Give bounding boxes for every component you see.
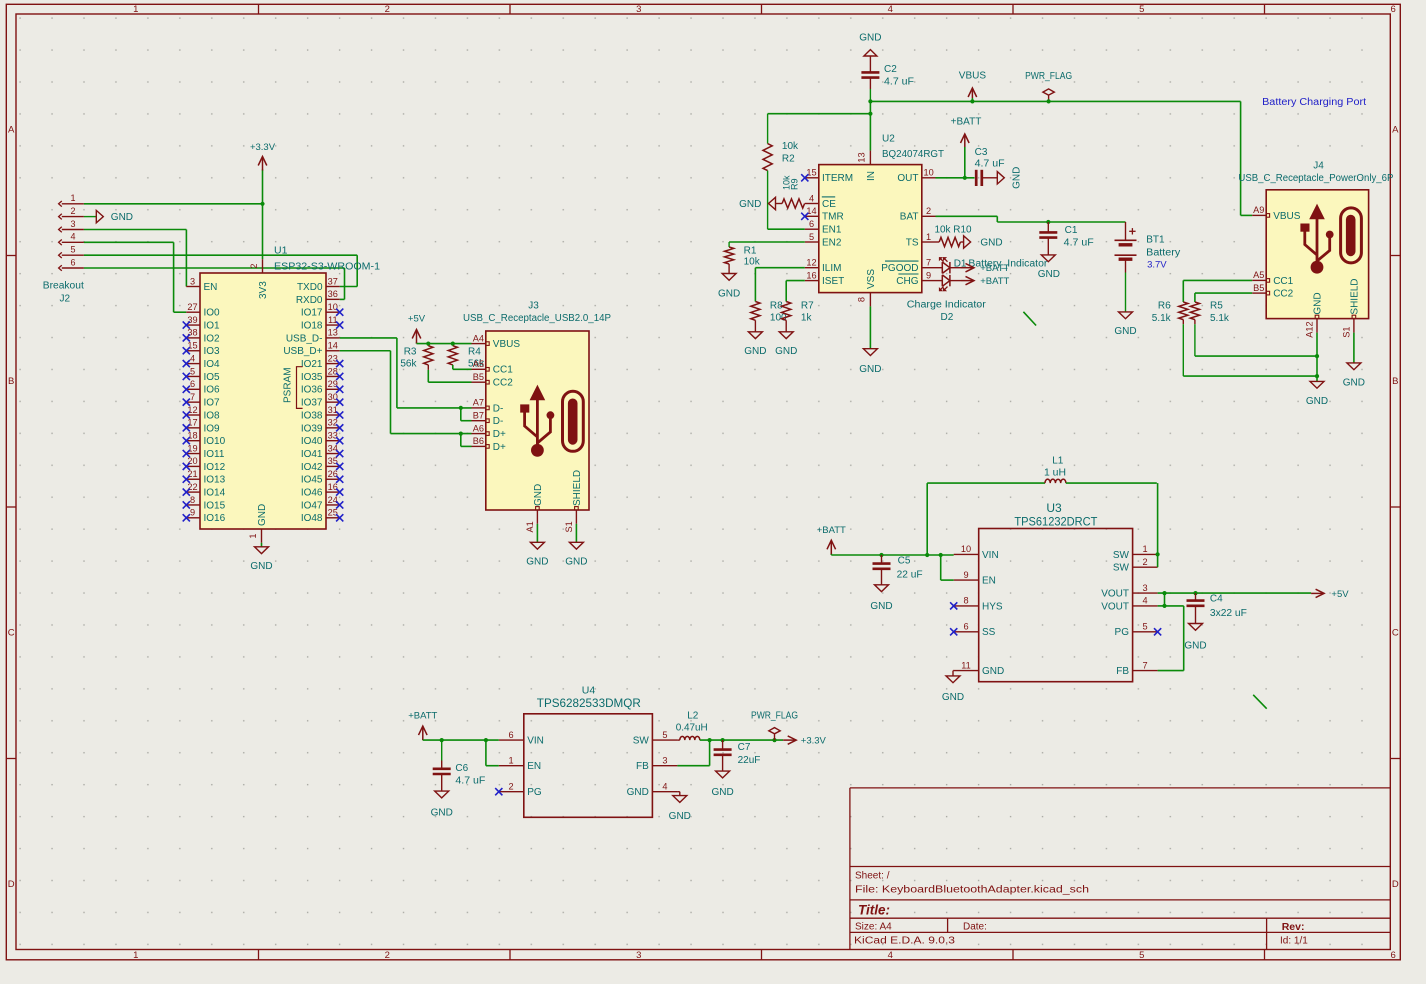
svg-text:+BATT: +BATT bbox=[980, 276, 1009, 287]
svg-text:KiCad E.D.A. 9.0.3: KiCad E.D.A. 9.0.3 bbox=[854, 936, 956, 947]
svg-text:16: 16 bbox=[328, 482, 338, 492]
svg-text:IO45: IO45 bbox=[301, 475, 323, 486]
power symbol GND under C6 bbox=[431, 791, 453, 818]
svg-text:3.7V: 3.7V bbox=[1147, 259, 1167, 270]
svg-text:GND: GND bbox=[257, 504, 268, 526]
svg-text:CC2: CC2 bbox=[1273, 289, 1293, 300]
power symbol +BATT at U4 bbox=[408, 711, 437, 741]
svg-text:VBUS: VBUS bbox=[493, 339, 521, 350]
wire +BATT to U4 VIN bbox=[423, 738, 499, 766]
svg-text:C3: C3 bbox=[975, 147, 988, 158]
svg-text:1: 1 bbox=[70, 193, 75, 203]
svg-text:1: 1 bbox=[133, 4, 138, 15]
resistor R4 56k bbox=[448, 344, 485, 370]
svg-text:3: 3 bbox=[1142, 583, 1147, 593]
svg-text:IO38: IO38 bbox=[301, 410, 323, 421]
svg-text:16: 16 bbox=[806, 270, 816, 280]
no-connect U3 HYS bbox=[950, 602, 957, 609]
svg-text:PG: PG bbox=[527, 787, 542, 798]
svg-text:11: 11 bbox=[328, 315, 338, 325]
svg-text:IO39: IO39 bbox=[301, 423, 323, 434]
svg-text:+3.3V: +3.3V bbox=[250, 142, 276, 153]
wire U2 BAT to battery bbox=[936, 216, 1126, 224]
power symbol GND right of C3 bbox=[997, 167, 1022, 189]
svg-text:IO18: IO18 bbox=[301, 320, 323, 331]
svg-text:IO7: IO7 bbox=[204, 398, 221, 409]
wire U3 VOUT to +5V bbox=[1158, 591, 1312, 671]
svg-text:GND: GND bbox=[718, 288, 740, 299]
svg-text:6: 6 bbox=[70, 257, 75, 267]
svg-text:ESP32-S3-WROOM-1: ESP32-S3-WROOM-1 bbox=[274, 261, 380, 273]
svg-text:TMR: TMR bbox=[822, 212, 844, 223]
svg-text:VOUT: VOUT bbox=[1101, 601, 1129, 612]
svg-text:Charge Indicator: Charge Indicator bbox=[907, 299, 987, 310]
power symbol GND under U4 GND pin bbox=[669, 796, 691, 822]
svg-text:C7: C7 bbox=[738, 742, 751, 753]
svg-text:22uF: 22uF bbox=[738, 755, 761, 766]
power symbol +BATT at D1 bbox=[961, 263, 1010, 274]
svg-text:L2: L2 bbox=[687, 711, 699, 722]
svg-text:2: 2 bbox=[508, 782, 513, 792]
svg-text:C5: C5 bbox=[898, 556, 911, 567]
svg-text:Battery: Battery bbox=[1146, 247, 1180, 258]
wire VBUS rail down to J4 VBUS bbox=[1241, 101, 1253, 215]
svg-text:5: 5 bbox=[190, 366, 195, 376]
svg-text:35: 35 bbox=[328, 456, 338, 466]
no-connect on U2 TMR bbox=[801, 213, 808, 220]
svg-text:5: 5 bbox=[809, 232, 814, 242]
svg-text:C4: C4 bbox=[1210, 594, 1223, 605]
LED D2 Charge Indicator bbox=[907, 275, 987, 323]
svg-text:1: 1 bbox=[1142, 544, 1147, 554]
power symbol GND under U1 bbox=[250, 543, 272, 572]
svg-text:2: 2 bbox=[70, 206, 75, 216]
capacitor C7 22uF bbox=[714, 740, 761, 771]
wire VBUS rail (top horizontal) bbox=[768, 99, 1241, 150]
svg-text:3: 3 bbox=[636, 950, 641, 961]
svg-text:4: 4 bbox=[888, 4, 893, 15]
svg-text:GND: GND bbox=[1312, 292, 1323, 314]
connector J2 (Breakout) bbox=[43, 193, 84, 304]
resistor R7 1k bbox=[782, 301, 815, 332]
power symbol GND under C5 bbox=[870, 585, 892, 612]
svg-text:VBUS: VBUS bbox=[959, 71, 987, 82]
svg-text:D-: D- bbox=[493, 416, 504, 427]
svg-text:37: 37 bbox=[328, 276, 338, 286]
svg-text:C6: C6 bbox=[455, 763, 468, 774]
svg-text:TXD0: TXD0 bbox=[297, 282, 323, 293]
svg-text:GND: GND bbox=[744, 346, 766, 357]
power symbol GND under C4 bbox=[1184, 624, 1206, 652]
svg-text:TS: TS bbox=[906, 237, 919, 248]
svg-text:+BATT: +BATT bbox=[980, 263, 1009, 274]
svg-text:4: 4 bbox=[1142, 596, 1147, 606]
svg-text:EN: EN bbox=[982, 576, 996, 587]
power flag PWR_FLAG (top) bbox=[1025, 71, 1072, 104]
svg-text:5.1k: 5.1k bbox=[1152, 313, 1172, 324]
svg-text:R7: R7 bbox=[801, 301, 814, 312]
svg-text:B: B bbox=[8, 376, 14, 387]
svg-text:GND: GND bbox=[942, 692, 964, 703]
wire U1 USB_D+ to J3 D+ bbox=[340, 351, 472, 447]
power symbol GND at U3 GND pin bbox=[942, 671, 964, 703]
power symbol GND under C7 bbox=[711, 771, 733, 798]
svg-text:J4: J4 bbox=[1313, 161, 1324, 172]
svg-text:CC2: CC2 bbox=[493, 378, 513, 389]
wire L2 to +3.3V bbox=[677, 738, 783, 766]
svg-text:OUT: OUT bbox=[897, 173, 918, 184]
resistor R5 5.1k bbox=[1190, 301, 1230, 357]
svg-text:File: KeyboardBluetoothAdapter: File: KeyboardBluetoothAdapter.kicad_sch bbox=[855, 885, 1089, 896]
svg-text:R2: R2 bbox=[782, 153, 795, 164]
svg-text:ITERM: ITERM bbox=[822, 173, 853, 184]
svg-text:GND: GND bbox=[739, 199, 761, 210]
svg-text:U1: U1 bbox=[274, 245, 288, 257]
svg-text:PGOOD: PGOOD bbox=[881, 263, 918, 274]
svg-text:10: 10 bbox=[328, 302, 338, 312]
svg-text:USB_C_Receptacle_PowerOnly_6P: USB_C_Receptacle_PowerOnly_6P bbox=[1238, 173, 1393, 184]
svg-text:VIN: VIN bbox=[527, 736, 544, 747]
svg-text:IO14: IO14 bbox=[204, 488, 226, 499]
svg-text:A4: A4 bbox=[473, 333, 484, 343]
svg-text:C1: C1 bbox=[1065, 225, 1078, 236]
svg-text:10k: 10k bbox=[744, 256, 761, 267]
svg-text:IO9: IO9 bbox=[204, 423, 221, 434]
svg-text:A: A bbox=[8, 125, 15, 136]
svg-text:6: 6 bbox=[1391, 4, 1396, 15]
wire U4 SW to L2 bbox=[677, 739, 679, 741]
svg-text:IO46: IO46 bbox=[301, 488, 323, 499]
svg-text:7: 7 bbox=[190, 392, 195, 402]
svg-text:GND: GND bbox=[982, 666, 1004, 677]
svg-text:2: 2 bbox=[249, 263, 259, 268]
svg-text:32: 32 bbox=[328, 418, 338, 428]
svg-text:EN: EN bbox=[204, 282, 218, 293]
svg-text:A12: A12 bbox=[1305, 321, 1315, 337]
svg-text:Battery Charging Port: Battery Charging Port bbox=[1262, 97, 1366, 108]
svg-text:10k: 10k bbox=[782, 141, 799, 152]
wire J4 CC2 to R5 bbox=[1195, 293, 1252, 302]
svg-text:EN: EN bbox=[527, 761, 541, 772]
svg-text:IO10: IO10 bbox=[204, 436, 226, 447]
wire U4 GND pin to GND bbox=[677, 792, 679, 796]
IC U3 TPS61232DRCT bbox=[954, 501, 1158, 682]
svg-text:34: 34 bbox=[328, 443, 338, 453]
text 10k R9 (rotated) near ITERM bbox=[782, 175, 800, 190]
svg-text:CE: CE bbox=[822, 199, 836, 210]
svg-text:0.47uH: 0.47uH bbox=[676, 723, 708, 734]
svg-text:C2: C2 bbox=[884, 64, 897, 75]
power symbol +BATT at D2 bbox=[961, 276, 1010, 287]
svg-text:PG: PG bbox=[1115, 627, 1130, 638]
inductor L2 0.47uH bbox=[676, 711, 708, 741]
svg-text:7: 7 bbox=[926, 258, 931, 268]
power symbol GND at J3 A1 bbox=[526, 524, 548, 568]
wire J2 pin5 to U1 TXD0 bbox=[84, 255, 357, 286]
svg-text:SW: SW bbox=[633, 736, 650, 747]
svg-text:C: C bbox=[8, 627, 15, 638]
stray wire segment near C1 bbox=[1023, 312, 1036, 326]
wire J2 pin1 to +3.3V and U1 3V3 bbox=[84, 202, 265, 260]
svg-text:IO41: IO41 bbox=[301, 449, 323, 460]
wire U2 OUT to C3 bbox=[936, 176, 975, 180]
svg-text:GND: GND bbox=[431, 807, 453, 818]
svg-text:SHIELD: SHIELD bbox=[1349, 278, 1360, 314]
svg-text:C: C bbox=[1392, 627, 1399, 638]
svg-text:B6: B6 bbox=[473, 436, 484, 446]
svg-text:GND: GND bbox=[111, 212, 133, 223]
svg-text:CC1: CC1 bbox=[493, 365, 513, 376]
svg-text:6: 6 bbox=[809, 219, 814, 229]
svg-text:Size: A4: Size: A4 bbox=[855, 922, 892, 933]
svg-text:CHG: CHG bbox=[896, 276, 918, 287]
svg-text:6: 6 bbox=[1391, 950, 1396, 961]
svg-text:6: 6 bbox=[190, 379, 195, 389]
svg-text:PWR_FLAG: PWR_FLAG bbox=[1025, 71, 1072, 82]
LED D1 Battery_Indicator bbox=[936, 258, 1049, 274]
svg-text:ISET: ISET bbox=[822, 276, 844, 287]
svg-text:USB_D+: USB_D+ bbox=[283, 346, 322, 357]
power symbol GND right of R10 bbox=[964, 236, 1003, 249]
capacitor C5 22uF bbox=[873, 555, 923, 585]
svg-text:J2: J2 bbox=[60, 294, 71, 305]
svg-text:VIN: VIN bbox=[982, 550, 999, 561]
svg-text:5.1k: 5.1k bbox=[1210, 313, 1230, 324]
svg-text:6: 6 bbox=[508, 730, 513, 740]
svg-text:R1: R1 bbox=[744, 246, 757, 257]
svg-text:2: 2 bbox=[385, 4, 390, 15]
svg-text:USB_C_Receptacle_USB2.0_14P: USB_C_Receptacle_USB2.0_14P bbox=[463, 313, 611, 324]
svg-text:BT1: BT1 bbox=[1146, 235, 1165, 246]
svg-text:D: D bbox=[1392, 879, 1399, 890]
resistor R3 56k bbox=[400, 344, 433, 383]
svg-text:4: 4 bbox=[662, 782, 667, 792]
svg-text:+3.3V: +3.3V bbox=[801, 736, 827, 747]
IC U4 TPS6282533DMQR bbox=[499, 684, 678, 817]
svg-text:GND: GND bbox=[669, 811, 691, 822]
power symbol +3.3V right bbox=[783, 736, 826, 747]
svg-text:1 uH: 1 uH bbox=[1044, 467, 1066, 478]
svg-text:8: 8 bbox=[857, 297, 867, 302]
svg-text:EN1: EN1 bbox=[822, 225, 842, 236]
power symbol GND at J2 pin 2 bbox=[84, 210, 133, 223]
svg-text:10: 10 bbox=[961, 544, 971, 554]
svg-text:14: 14 bbox=[328, 341, 338, 351]
svg-text:IO0: IO0 bbox=[204, 308, 221, 319]
wire J4 A12 down bbox=[1316, 333, 1318, 382]
svg-text:R5: R5 bbox=[1210, 301, 1223, 312]
svg-text:IO15: IO15 bbox=[204, 500, 226, 511]
svg-text:5: 5 bbox=[1142, 622, 1147, 632]
svg-text:D+: D+ bbox=[493, 429, 506, 440]
svg-text:10k R10: 10k R10 bbox=[935, 225, 972, 236]
svg-text:IO17: IO17 bbox=[301, 308, 323, 319]
power flag PWR_FLAG at U4 bbox=[751, 711, 798, 741]
resistor R10 10k (horizontal at TS) bbox=[935, 225, 972, 247]
svg-text:A5: A5 bbox=[1253, 270, 1264, 280]
svg-text:PSRAM: PSRAM bbox=[283, 367, 294, 403]
svg-text:BQ24074RGT: BQ24074RGT bbox=[882, 149, 944, 160]
power symbol GND under R7 bbox=[775, 332, 797, 357]
svg-text:GND: GND bbox=[250, 561, 272, 572]
power symbol +BATT at U3 bbox=[817, 525, 846, 555]
svg-text:2: 2 bbox=[385, 950, 390, 961]
svg-text:A9: A9 bbox=[1253, 205, 1264, 215]
no-connect on U2 ITERM bbox=[801, 174, 808, 181]
wire J4 S1 down bbox=[1353, 333, 1355, 363]
wire R3 to J3 CC2 bbox=[428, 381, 471, 383]
power symbol +5V bbox=[408, 314, 426, 344]
svg-text:A7: A7 bbox=[473, 398, 484, 408]
svg-text:IO5: IO5 bbox=[204, 372, 221, 383]
capacitor C2 4.7uF bbox=[861, 56, 914, 101]
svg-text:4.7 uF: 4.7 uF bbox=[884, 76, 914, 87]
svg-text:S1: S1 bbox=[1341, 327, 1351, 338]
wire J4 CC1 to R6 bbox=[1183, 280, 1252, 302]
svg-text:11: 11 bbox=[961, 660, 971, 670]
svg-text:IO37: IO37 bbox=[301, 398, 323, 409]
svg-text:Sheet: /: Sheet: / bbox=[855, 871, 890, 882]
svg-text:GND: GND bbox=[627, 787, 649, 798]
svg-text:IO35: IO35 bbox=[301, 372, 323, 383]
connector J4 USB_C_Receptacle_PowerOnly_6P bbox=[1238, 161, 1393, 338]
power symbol GND under C1 bbox=[1038, 255, 1060, 280]
svg-text:SS: SS bbox=[982, 627, 996, 638]
svg-text:9: 9 bbox=[926, 270, 931, 280]
wire U2 ISET to R7 bbox=[786, 281, 805, 302]
svg-text:5: 5 bbox=[1139, 4, 1144, 15]
wire J2 pin6 to U1 RXD0 bbox=[84, 268, 345, 299]
svg-text:6: 6 bbox=[963, 622, 968, 632]
svg-text:IO42: IO42 bbox=[301, 462, 323, 473]
svg-text:+BATT: +BATT bbox=[408, 711, 437, 722]
power symbol GND under BT1 bbox=[1114, 312, 1136, 337]
power symbol GND under J4 A12 bbox=[1306, 381, 1328, 406]
svg-text:U2: U2 bbox=[882, 134, 895, 145]
svg-text:R3: R3 bbox=[404, 346, 417, 357]
svg-text:29: 29 bbox=[328, 379, 338, 389]
svg-text:PWR_FLAG: PWR_FLAG bbox=[751, 711, 798, 722]
svg-text:Id: 1/1: Id: 1/1 bbox=[1280, 936, 1308, 947]
svg-text:12: 12 bbox=[806, 258, 816, 268]
svg-text:CC1: CC1 bbox=[1273, 276, 1293, 287]
svg-text:5: 5 bbox=[1139, 950, 1144, 961]
svg-text:D: D bbox=[8, 879, 15, 890]
svg-text:TPS6282533DMQR: TPS6282533DMQR bbox=[537, 696, 641, 710]
svg-text:R6: R6 bbox=[1158, 301, 1171, 312]
svg-text:+BATT: +BATT bbox=[951, 117, 982, 128]
title block bbox=[850, 788, 1390, 950]
svg-text:FB: FB bbox=[1116, 666, 1129, 677]
svg-text:5: 5 bbox=[70, 245, 75, 255]
wire U1 USB_D- to J3 D- bbox=[340, 338, 472, 421]
svg-text:S1: S1 bbox=[564, 521, 574, 532]
svg-text:9: 9 bbox=[190, 508, 195, 518]
svg-text:4.7 uF: 4.7 uF bbox=[1064, 238, 1094, 249]
svg-text:R4: R4 bbox=[468, 346, 481, 357]
svg-text:Rev:: Rev: bbox=[1282, 921, 1305, 933]
svg-text:7: 7 bbox=[1142, 660, 1147, 670]
power symbol GND under U2 VSS bbox=[859, 349, 881, 375]
wire R6 to J4 A12 net bbox=[1183, 374, 1319, 378]
svg-text:B7: B7 bbox=[473, 411, 484, 421]
svg-text:IO8: IO8 bbox=[204, 410, 221, 421]
USB logo inside J4 bbox=[1301, 205, 1362, 274]
svg-text:IO6: IO6 bbox=[204, 385, 221, 396]
wire +BATT to U3 VIN bbox=[831, 483, 953, 580]
svg-text:IO4: IO4 bbox=[204, 359, 221, 370]
svg-text:Date:: Date: bbox=[963, 922, 987, 933]
svg-text:D-: D- bbox=[493, 403, 504, 414]
power symbol GND under J4 S1 bbox=[1343, 363, 1365, 389]
svg-text:B5: B5 bbox=[473, 372, 484, 382]
svg-text:25: 25 bbox=[328, 508, 338, 518]
svg-text:GND: GND bbox=[859, 364, 881, 375]
svg-text:IO13: IO13 bbox=[204, 475, 226, 486]
svg-text:3: 3 bbox=[662, 756, 667, 766]
wire J2 pin4 to U1 IO0 bbox=[84, 242, 186, 312]
svg-text:IO2: IO2 bbox=[204, 333, 221, 344]
stray wire segment below C4 bbox=[1253, 695, 1267, 709]
svg-text:3V3: 3V3 bbox=[258, 281, 269, 299]
svg-text:IO1: IO1 bbox=[204, 320, 221, 331]
svg-text:D2: D2 bbox=[941, 312, 954, 323]
inductor L1 1uH bbox=[927, 455, 1157, 483]
svg-text:4: 4 bbox=[888, 950, 893, 961]
svg-text:GND: GND bbox=[1038, 269, 1060, 280]
svg-text:FB: FB bbox=[636, 761, 649, 772]
svg-text:31: 31 bbox=[328, 405, 338, 415]
svg-text:GND: GND bbox=[1184, 640, 1206, 651]
svg-text:1: 1 bbox=[508, 756, 513, 766]
svg-text:GND: GND bbox=[1343, 377, 1365, 388]
svg-text:4.7 uF: 4.7 uF bbox=[455, 775, 485, 786]
svg-text:IO48: IO48 bbox=[301, 513, 323, 524]
svg-text:3: 3 bbox=[70, 219, 75, 229]
svg-text:3x22 uF: 3x22 uF bbox=[1210, 608, 1247, 619]
svg-text:R9: R9 bbox=[790, 178, 800, 190]
svg-text:IO3: IO3 bbox=[204, 346, 221, 357]
power symbol GND above C2 (inverted) bbox=[859, 33, 881, 56]
svg-text:TPS61232DRCT: TPS61232DRCT bbox=[1014, 515, 1098, 529]
capacitor C3 4.7uF (horizontal) bbox=[975, 147, 1005, 186]
svg-text:IO16: IO16 bbox=[204, 513, 226, 524]
wire U2 VSS to GND bbox=[869, 306, 871, 348]
svg-text:26: 26 bbox=[328, 469, 338, 479]
svg-text:SW: SW bbox=[1113, 563, 1130, 574]
svg-text:SHIELD: SHIELD bbox=[572, 470, 583, 506]
wire U2 EN2 to R1 bbox=[729, 241, 805, 243]
svg-text:Breakout: Breakout bbox=[43, 281, 84, 292]
svg-text:4: 4 bbox=[70, 232, 75, 242]
battery BT1 3.7V bbox=[1115, 222, 1181, 312]
wire R2 to U2 EN1 bbox=[768, 228, 805, 230]
svg-text:8: 8 bbox=[190, 495, 195, 505]
svg-text:A1: A1 bbox=[525, 521, 535, 532]
svg-text:GND: GND bbox=[533, 484, 544, 506]
resistor R6 5.1k bbox=[1152, 301, 1188, 377]
svg-text:GND: GND bbox=[870, 601, 892, 612]
no-connect U3 SS bbox=[950, 628, 957, 635]
svg-text:1: 1 bbox=[248, 533, 258, 538]
wire J2 pin3 to U1 EN bbox=[84, 230, 186, 287]
wire U2 ILIM to R8 bbox=[755, 268, 804, 302]
svg-text:3: 3 bbox=[636, 4, 641, 15]
capacitor C4 3x22uF bbox=[1187, 593, 1247, 623]
svg-text:1k: 1k bbox=[801, 313, 813, 324]
svg-text:L1: L1 bbox=[1052, 455, 1064, 466]
svg-text:IO40: IO40 bbox=[301, 436, 323, 447]
